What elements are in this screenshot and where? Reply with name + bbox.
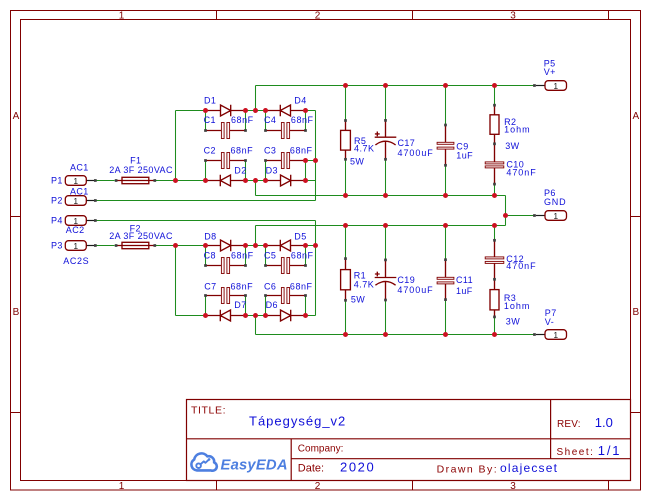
- svg-text:3W: 3W: [506, 316, 520, 326]
- svg-text:C19: C19: [397, 275, 415, 285]
- svg-text:2020: 2020: [340, 459, 375, 474]
- svg-text:Date:: Date:: [298, 462, 324, 474]
- svg-text:GND: GND: [544, 197, 566, 207]
- svg-text:C4: C4: [264, 115, 276, 125]
- svg-text:D6: D6: [266, 300, 278, 310]
- svg-text:1/1: 1/1: [598, 443, 621, 458]
- svg-text:4700uF: 4700uF: [398, 148, 434, 158]
- svg-text:5W: 5W: [351, 294, 365, 304]
- svg-text:REV:: REV:: [557, 419, 581, 430]
- svg-text:A: A: [632, 111, 639, 122]
- svg-text:68nF: 68nF: [291, 251, 314, 261]
- svg-text:470nF: 470nF: [506, 168, 536, 178]
- svg-text:2: 2: [315, 481, 321, 492]
- svg-text:1: 1: [553, 330, 558, 340]
- svg-text:3: 3: [510, 481, 516, 492]
- svg-text:TITLE:: TITLE:: [191, 404, 226, 416]
- svg-text:1ohm: 1ohm: [504, 301, 531, 311]
- svg-text:C8: C8: [204, 251, 216, 261]
- svg-text:1: 1: [119, 481, 125, 492]
- svg-text:V-: V-: [545, 317, 554, 327]
- svg-text:2A 3F 250VAC: 2A 3F 250VAC: [109, 231, 173, 241]
- svg-text:C6: C6: [264, 281, 276, 291]
- svg-text:AC1: AC1: [70, 187, 89, 197]
- svg-text:68nF: 68nF: [231, 251, 254, 261]
- svg-text:D2: D2: [234, 165, 246, 175]
- svg-text:1uF: 1uF: [456, 150, 473, 160]
- svg-text:Drawn By:: Drawn By:: [437, 463, 498, 475]
- svg-text:C1: C1: [204, 115, 216, 125]
- svg-text:olajecset: olajecset: [500, 461, 558, 475]
- svg-text:1uF: 1uF: [456, 286, 473, 296]
- svg-text:D4: D4: [294, 95, 306, 105]
- svg-text:Company:: Company:: [298, 444, 344, 455]
- svg-text:EasyEDA: EasyEDA: [221, 458, 288, 474]
- svg-text:68nF: 68nF: [291, 115, 314, 125]
- svg-text:D3: D3: [266, 165, 278, 175]
- svg-text:P4: P4: [51, 215, 63, 225]
- svg-text:D5: D5: [294, 232, 306, 242]
- svg-text:4.7K: 4.7K: [354, 280, 375, 290]
- svg-text:68nF: 68nF: [231, 145, 254, 155]
- svg-text:3: 3: [510, 11, 516, 22]
- svg-text:P1: P1: [51, 176, 63, 186]
- svg-text:4700uF: 4700uF: [397, 285, 433, 295]
- svg-text:V+: V+: [544, 67, 556, 77]
- svg-text:C3: C3: [264, 145, 276, 155]
- svg-text:1ohm: 1ohm: [504, 125, 531, 135]
- svg-text:C2: C2: [204, 145, 216, 155]
- svg-text:4.7K: 4.7K: [354, 143, 375, 153]
- svg-text:C5: C5: [264, 251, 276, 261]
- svg-text:Sheet:: Sheet:: [557, 447, 595, 458]
- svg-text:D8: D8: [204, 232, 216, 242]
- svg-text:1: 1: [73, 196, 78, 206]
- svg-text:B: B: [13, 307, 20, 318]
- svg-text:P3: P3: [51, 241, 63, 251]
- svg-text:1: 1: [73, 241, 78, 251]
- svg-text:68nF: 68nF: [231, 115, 254, 125]
- svg-text:1: 1: [553, 211, 558, 221]
- svg-text:1: 1: [73, 176, 78, 186]
- svg-text:68nF: 68nF: [231, 281, 254, 291]
- svg-text:B: B: [632, 307, 639, 318]
- svg-text:C17: C17: [398, 138, 416, 148]
- svg-text:3W: 3W: [505, 141, 519, 151]
- svg-text:1: 1: [119, 11, 125, 22]
- svg-text:68nF: 68nF: [290, 281, 313, 291]
- svg-text:68nF: 68nF: [290, 145, 313, 155]
- svg-text:470nF: 470nF: [506, 261, 536, 271]
- svg-text:5W: 5W: [350, 157, 364, 167]
- svg-text:AC1: AC1: [70, 162, 89, 172]
- svg-text:2A 3F 250VAC: 2A 3F 250VAC: [109, 165, 173, 175]
- svg-text:A: A: [13, 111, 20, 122]
- svg-text:1: 1: [553, 81, 558, 91]
- svg-text:P2: P2: [51, 196, 63, 206]
- svg-text:C7: C7: [204, 281, 216, 291]
- svg-text:1.0: 1.0: [595, 415, 613, 430]
- svg-text:AC2: AC2: [66, 225, 85, 235]
- svg-text:Tápegység_v2: Tápegység_v2: [249, 414, 346, 429]
- svg-text:AC2S: AC2S: [63, 256, 89, 266]
- svg-text:D1: D1: [204, 95, 216, 105]
- svg-text:2: 2: [315, 11, 321, 22]
- svg-text:C11: C11: [456, 275, 473, 285]
- svg-text:D7: D7: [234, 300, 246, 310]
